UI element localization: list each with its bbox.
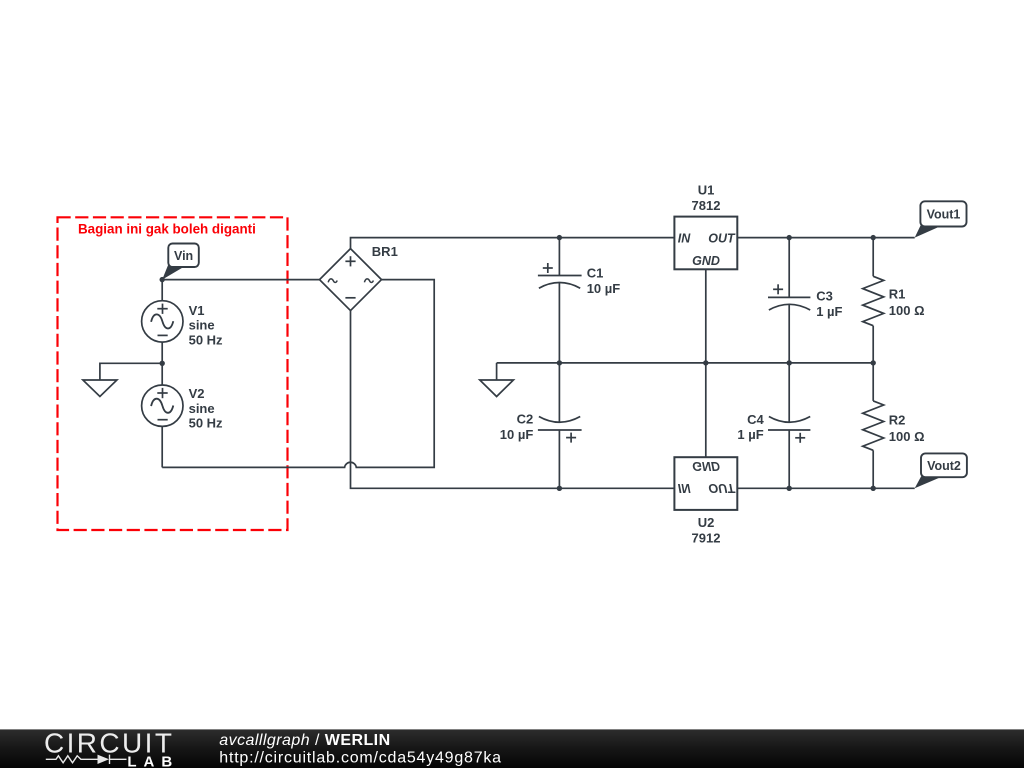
svg-text:IN: IN: [678, 231, 691, 245]
junction C3 top: [787, 235, 792, 240]
regulator U2: [674, 457, 737, 510]
junction R2 bottom: [871, 486, 876, 491]
junction R1-R2 middle: [871, 360, 876, 365]
capacitor C3: [768, 238, 810, 363]
ground (middle): [480, 380, 514, 397]
svg-text:BR1: BR1: [372, 244, 398, 259]
net flag Vout1: [915, 201, 967, 237]
resistor R2: [863, 363, 884, 488]
net flag Vout2: [915, 453, 967, 488]
CircuitLab logo wordmark: [44, 728, 179, 768]
red keep-out dashed box: [58, 217, 288, 530]
svg-text:Vout1: Vout1: [927, 208, 961, 222]
junction U1-U2 GND middle: [703, 360, 708, 365]
wire to left ground: [100, 363, 162, 380]
junction node between V1 and V2: [160, 361, 165, 366]
resistor R1: [863, 238, 884, 363]
svg-text:http://circuitlab.com/cda54y49: http://circuitlab.com/cda54y49g87ka: [219, 749, 502, 766]
junction C2 bottom: [557, 486, 562, 491]
wire U1 OUT to Vout1: [737, 237, 914, 239]
junction R1 top: [871, 235, 876, 240]
capacitor C4: [768, 363, 810, 488]
svg-text:avcalllgraph / WERLIN: avcalllgraph / WERLIN: [219, 732, 390, 749]
wire BR1 top to positive bus: [351, 238, 675, 249]
net flag Vin: [162, 244, 199, 280]
ground drop (middle): [496, 363, 498, 380]
svg-text:IN: IN: [678, 481, 691, 495]
ground (left): [83, 380, 117, 397]
svg-text:OUT: OUT: [708, 481, 736, 495]
junction C4 bottom: [787, 486, 792, 491]
junction node Vin: [160, 277, 165, 282]
wire V2 bottom to bridge right vertex (with hop): [162, 280, 434, 468]
svg-text:LAB: LAB: [127, 753, 179, 768]
wire BR1 bottom to negative bus: [351, 311, 675, 489]
wire U1 GND to middle bus: [705, 269, 707, 363]
svg-text:GND: GND: [692, 254, 720, 268]
svg-text:Bagian ini gak boleh diganti: Bagian ini gak boleh diganti: [78, 222, 256, 237]
junction C3-C4 middle: [787, 360, 792, 365]
wire Vin node to BR1 left: [162, 279, 319, 281]
logo resistor-diode glyph: [46, 755, 127, 764]
wire U2 OUT to Vout2: [737, 487, 914, 489]
voltage source V1: [142, 280, 183, 364]
capacitor C1: [538, 238, 582, 363]
wire middle ground bus: [497, 362, 874, 364]
voltage source V2: [142, 363, 183, 467]
wire U2 GND to middle bus: [705, 363, 707, 457]
svg-text:Vin: Vin: [174, 249, 193, 263]
regulator U1: [674, 217, 737, 270]
junction C1-C2 middle: [557, 360, 562, 365]
bridge rectifier BR1: [320, 249, 382, 311]
svg-text:GND: GND: [692, 459, 720, 473]
junction C1 top: [557, 235, 562, 240]
svg-text:Vout2: Vout2: [927, 459, 961, 473]
svg-text:OUT: OUT: [708, 231, 736, 245]
capacitor C2: [538, 363, 582, 488]
